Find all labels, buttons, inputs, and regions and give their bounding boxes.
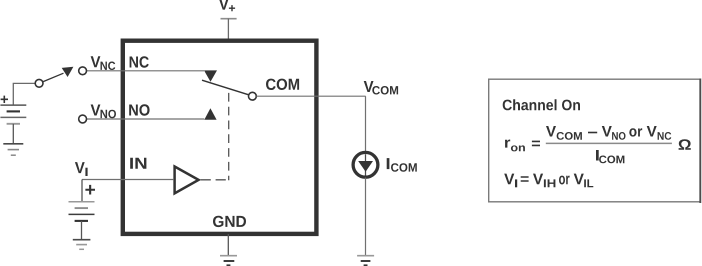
COM pivot circle: [249, 92, 257, 100]
battery left source: [0, 105, 26, 124]
ground bottom center: [220, 256, 237, 266]
terminal VNO: [79, 115, 87, 123]
current source ICOM: [353, 152, 378, 178]
ground below VI battery: [73, 240, 91, 250]
ground below left battery: [3, 144, 23, 155]
wire battery VI to ground: [81, 221, 83, 240]
wire COM out: [256, 95, 365, 97]
fraction bar: [546, 142, 672, 144]
V+ terminal bar: [221, 18, 237, 20]
annotation panel right edge: [699, 79, 701, 204]
label VNO: [91, 105, 116, 119]
wire VCOM down: [365, 96, 367, 152]
formula denominator ICOM: [596, 150, 624, 163]
text Channel On: [503, 99, 580, 110]
terminal VNC: [79, 67, 87, 75]
switch arrow: [62, 67, 74, 77]
ground right: [357, 256, 374, 266]
wire IN pin: [82, 179, 173, 181]
IC switch box: [123, 41, 317, 234]
wire V+ to box top: [227, 19, 229, 40]
wire left battery to ground: [12, 124, 14, 144]
left source battery plus label: [1, 96, 8, 103]
wire NC pin: [87, 70, 204, 72]
NO contact triangle: [204, 108, 216, 119]
wire VI down: [81, 180, 83, 202]
annotation panel box: [489, 79, 701, 202]
label ICOM: [387, 158, 417, 172]
formula ron equals: [505, 140, 540, 152]
dashed control line horizontal: [201, 179, 229, 181]
pin label COM: [266, 79, 299, 90]
battery VI plus label: [85, 185, 95, 195]
switch pole circle: [35, 79, 43, 87]
label VCOM: [364, 81, 398, 95]
label VNC: [91, 56, 116, 70]
wire current source to ground: [365, 178, 367, 256]
pin label GND: [213, 216, 246, 227]
dashed control line vertical: [228, 93, 230, 180]
switch wiper arm: [202, 80, 249, 95]
formula numerator VCOM minus VNO or VNC: [546, 126, 671, 140]
NC contact triangle: [204, 70, 217, 81]
V+ supply terminal label: [219, 0, 235, 11]
switch lever: [43, 73, 63, 81]
pin label NC: [130, 56, 149, 67]
pin label IN: [130, 158, 146, 169]
wire GND pin down: [227, 234, 229, 256]
pin label NO: [129, 104, 149, 115]
text VI equals VIH or VIL: [504, 174, 593, 188]
label VI: [75, 162, 88, 176]
input buffer driver: [175, 167, 199, 194]
wire battery top corner: [13, 83, 35, 105]
omega: [679, 139, 691, 150]
battery VI: [69, 202, 95, 221]
wire NO pin: [87, 118, 205, 120]
